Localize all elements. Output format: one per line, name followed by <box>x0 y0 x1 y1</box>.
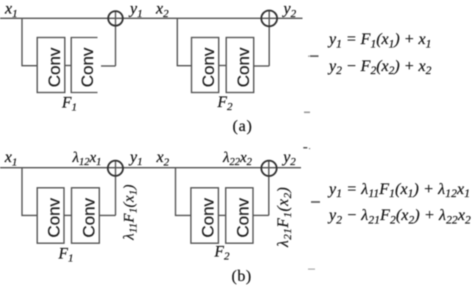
svg-text:y2: y2 <box>282 1 297 20</box>
svg-text:Conv: Conv <box>199 47 218 87</box>
svg-text:Conv: Conv <box>45 47 64 87</box>
svg-text:λ22x2: λ22x2 <box>222 150 253 168</box>
svg-text:λ21F1(x2): λ21F1(x2) <box>275 187 294 248</box>
svg-text:y1 = F1(x1) + x1: y1 = F1(x1) + x1 <box>327 31 431 50</box>
svg-text:Conv: Conv <box>233 197 252 237</box>
svg-text:x1: x1 <box>4 149 18 168</box>
svg-text:λ11F1(x1): λ11F1(x1) <box>122 184 140 241</box>
svg-text:Conv: Conv <box>234 47 253 87</box>
svg-text:λ12x1: λ12x1 <box>72 150 102 168</box>
svg-text:y2: y2 <box>281 149 296 168</box>
svg-text:F1: F1 <box>58 246 74 265</box>
svg-text:F2: F2 <box>217 94 233 113</box>
svg-text:y2 − F2(x2) + x2: y2 − F2(x2) + x2 <box>327 58 432 77</box>
svg-text:Conv: Conv <box>78 47 97 87</box>
svg-text:y1: y1 <box>128 149 143 168</box>
svg-text:Conv: Conv <box>199 197 218 237</box>
svg-text:(a): (a) <box>233 118 253 135</box>
svg-text:F2: F2 <box>214 244 230 263</box>
svg-text:y1 = λ11F1(x1) + λ12x1: y1 = λ11F1(x1) + λ12x1 <box>327 181 470 200</box>
svg-text:Conv: Conv <box>79 197 98 237</box>
svg-text:x1: x1 <box>4 1 18 20</box>
svg-text:y1: y1 <box>128 1 143 20</box>
svg-text:y2 − λ21F2(x2) + λ22x2: y2 − λ21F2(x2) + λ22x2 <box>327 207 471 226</box>
svg-text:x2: x2 <box>156 149 170 168</box>
svg-text:(b): (b) <box>232 268 252 285</box>
svg-text:Conv: Conv <box>44 197 63 237</box>
svg-text:F1: F1 <box>61 95 77 114</box>
svg-text:x2: x2 <box>155 1 169 20</box>
